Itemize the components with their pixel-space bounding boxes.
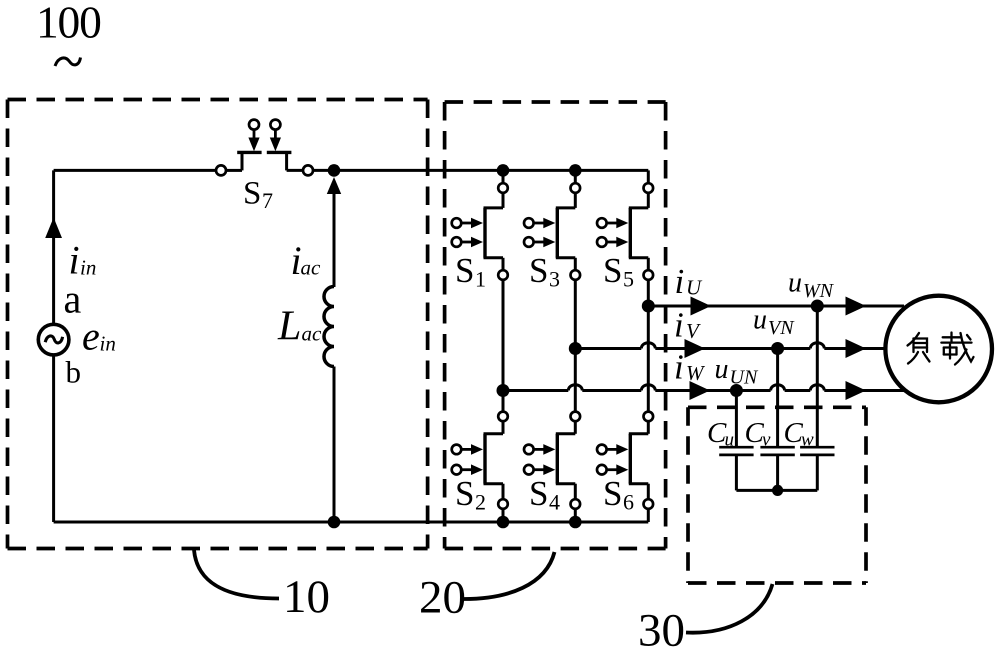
- load text 负载: [908, 333, 974, 365]
- svg-text:S: S: [455, 251, 474, 290]
- label i_W: [674, 348, 706, 387]
- block 10 dashed box (rectifier/source stage): [8, 100, 428, 549]
- node: capacitor bus junction: [772, 485, 783, 496]
- node: u_VN tap on phase V: [771, 342, 784, 355]
- node: phase U junction: [642, 300, 655, 313]
- label S7: [243, 176, 273, 214]
- label u_WN: [788, 268, 835, 303]
- tilde under 100: [55, 58, 81, 67]
- svg-text:7: 7: [262, 188, 273, 213]
- inductor L_ac: [324, 192, 334, 522]
- svg-text:30: 30: [638, 605, 685, 651]
- node: source bottom rail junction: [328, 516, 341, 529]
- svg-text:S: S: [455, 474, 474, 513]
- svg-text:6: 6: [623, 490, 634, 515]
- block 20 dashed box (inverter bridge): [445, 102, 666, 549]
- node: bottom rail junction S2 leg: [497, 516, 510, 529]
- switch S5: [597, 183, 653, 280]
- switch S4: [524, 412, 580, 509]
- label i_in: [69, 238, 97, 283]
- label u_VN: [753, 305, 795, 340]
- arrow i_U first: [691, 297, 712, 316]
- svg-text:w: w: [801, 430, 814, 451]
- node: phase W junction: [497, 384, 510, 397]
- leader curve 30: [686, 584, 773, 633]
- switch S1: [452, 183, 508, 280]
- wire: leg middle (S3 to phase node and lower switch): [574, 280, 577, 412]
- AC source e_in: [38, 324, 69, 355]
- node: top rail junction S1 leg: [497, 164, 510, 177]
- svg-text:100: 100: [36, 0, 101, 48]
- wire: leg middle (S1 to phase node and lower switch): [502, 280, 505, 412]
- wire: capacitor common bus: [736, 489, 817, 492]
- node: top rail junction S3 leg: [569, 164, 582, 177]
- svg-text:VN: VN: [768, 317, 795, 339]
- label C_v: [745, 417, 772, 451]
- wire: capacitor C_u lead from u_UN tap: [735, 391, 738, 448]
- wire: leg top (rail to switch S3): [574, 170, 577, 183]
- wire: capacitor C_w lead from u_WN tap: [816, 306, 819, 447]
- arrow i_U at load: [846, 297, 867, 316]
- svg-text:v: v: [762, 430, 771, 451]
- arrow i_V first: [685, 339, 706, 358]
- svg-text:4: 4: [549, 490, 560, 515]
- label S4: [529, 474, 560, 515]
- wire: leg top (rail to switch S5): [0, 0, 1, 1]
- label 10: [283, 571, 330, 623]
- wire: leg bottom (S4 to bottom rail): [574, 509, 577, 522]
- svg-text:i: i: [674, 306, 684, 345]
- switch S6: [597, 412, 653, 509]
- label i_ac: [291, 238, 322, 283]
- svg-text:W: W: [686, 361, 706, 385]
- svg-text:WN: WN: [803, 280, 835, 302]
- label S3: [529, 251, 560, 292]
- svg-text:i: i: [674, 348, 684, 387]
- svg-text:S: S: [603, 474, 622, 513]
- svg-text:u: u: [753, 305, 767, 336]
- label C_w: [784, 417, 815, 451]
- label i_U: [675, 262, 704, 301]
- svg-text:i: i: [675, 262, 685, 301]
- arrow i_in direction: [45, 218, 62, 239]
- capacitor C_w: [800, 447, 834, 490]
- svg-text:ac: ac: [301, 256, 322, 280]
- wire: top rail left segment: [54, 169, 216, 172]
- node: phase V junction: [569, 342, 582, 355]
- arrow i_W first: [690, 381, 711, 400]
- wire: source bottom to bottom rail: [52, 355, 55, 522]
- label S2: [455, 474, 486, 515]
- svg-text:L: L: [277, 304, 301, 350]
- svg-text:5: 5: [623, 267, 634, 292]
- wire: left vertical from source to top rail: [52, 170, 55, 324]
- node a: [64, 277, 82, 322]
- svg-text:b: b: [66, 355, 82, 390]
- arrow i_ac direction: [327, 177, 341, 194]
- svg-text:u: u: [725, 430, 735, 451]
- label e_in: [82, 314, 116, 359]
- label i_V: [674, 306, 701, 345]
- svg-text:1: 1: [475, 267, 486, 292]
- node: L_ac top junction: [328, 164, 341, 177]
- switch S2: [452, 412, 508, 509]
- svg-text:10: 10: [283, 571, 330, 623]
- wire: phase V output line with hops: [575, 343, 903, 349]
- capacitor C_u: [719, 447, 753, 490]
- wire: phase W output line with hops: [503, 385, 904, 391]
- label S5: [603, 251, 634, 292]
- wire: leg top (rail to switch S1): [502, 170, 505, 183]
- svg-text:3: 3: [549, 267, 560, 292]
- label S1: [455, 251, 486, 292]
- wire: top rail from S7 to bridge, ends at S5 leg: [313, 170, 648, 183]
- wire: capacitor C_v lead from u_VN tap: [776, 349, 779, 448]
- load circle (负载): [885, 296, 992, 403]
- svg-text:S: S: [243, 176, 261, 212]
- label S6: [603, 474, 634, 515]
- svg-text:in: in: [80, 256, 96, 280]
- block 30 dashed box (filter capacitors): [688, 407, 866, 583]
- node: u_UN tap on phase W: [730, 384, 743, 397]
- svg-text:ac: ac: [302, 322, 323, 346]
- svg-text:U: U: [686, 276, 703, 300]
- node: u_WN tap on phase U: [811, 300, 824, 313]
- switch S3: [524, 183, 580, 280]
- svg-text:S: S: [529, 474, 548, 513]
- label u_UN: [715, 354, 759, 389]
- label 20: [419, 572, 466, 624]
- node b: [66, 355, 82, 390]
- leader curve 10: [194, 550, 279, 599]
- leader curve 20: [464, 552, 555, 599]
- wire: leg middle (S5 to phase node and lower switch): [647, 280, 650, 412]
- wire: phase U output line: [648, 305, 904, 308]
- label 30: [638, 605, 685, 651]
- svg-text:a: a: [64, 277, 82, 322]
- arrow i_W at load: [846, 381, 867, 400]
- node: bottom rail junction S4 leg: [569, 516, 582, 529]
- label L_ac: [277, 304, 322, 350]
- wire: bottom rail: [54, 509, 649, 522]
- svg-text:2: 2: [475, 490, 486, 515]
- svg-text:UN: UN: [730, 367, 759, 389]
- arrow i_V at load: [846, 339, 867, 358]
- svg-text:in: in: [100, 332, 116, 356]
- switch S7 (bidirectional AC switch): [216, 120, 313, 176]
- wire: leg bottom (S2 to bottom rail): [502, 509, 505, 522]
- svg-text:S: S: [603, 251, 622, 290]
- wire: leg bottom (S6 to bottom rail): [0, 0, 1, 1]
- svg-text:e: e: [82, 314, 100, 359]
- svg-text:S: S: [529, 251, 548, 290]
- svg-text:20: 20: [419, 572, 466, 624]
- label 100: [36, 0, 101, 48]
- svg-text:V: V: [686, 319, 701, 343]
- svg-text:u: u: [788, 268, 802, 299]
- label C_u: [707, 417, 734, 451]
- capacitor C_v: [760, 447, 794, 490]
- svg-text:u: u: [715, 354, 729, 385]
